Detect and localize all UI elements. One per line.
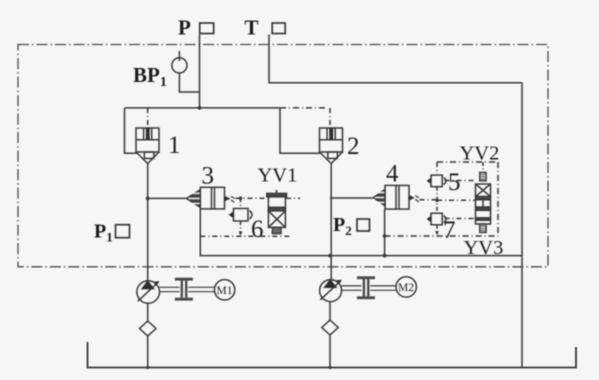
node pump2 tank junction [328,366,331,369]
wire pump2 to tank [329,335,331,368]
filter diamond 2 [322,320,338,335]
port P square [200,23,214,34]
wire branch to valve 2 side [280,108,320,153]
pilot dash item5 to valve [445,180,476,182]
filter diamond 1 [140,321,157,336]
svg-text:YV2: YV2 [460,143,500,165]
svg-text:M2: M2 [398,282,414,294]
shaft pump1-motor1 [160,287,215,291]
svg-text:4: 4 [386,160,399,187]
pilot dash valve3 to YV1 [236,197,269,199]
port T square [272,23,285,34]
wire pump1 suction [147,303,149,321]
wire T line [269,35,522,83]
svg-text:2: 2 [347,133,360,160]
wire pump1 to tank [147,336,149,368]
node return-pump2 junction [328,254,332,258]
valve 2 pilot dashed [280,107,328,109]
coupling 2 [357,276,375,299]
node pilot cross [239,196,243,200]
node valve4 drain dash junction [383,234,387,238]
svg-text:YV1: YV1 [258,165,298,187]
orifice item 5 [427,175,447,187]
wire valve4 drain [384,209,386,256]
dashed pilot box left edge upper [436,162,438,175]
pump 1 [137,280,160,303]
dash valve cap drop [482,162,484,172]
pilot dash bottom-left horizontal [200,235,290,237]
enclosure dashed border [18,45,548,267]
node valve3 feed junction [146,197,150,201]
gauge BP1 [172,51,187,73]
pump 2 [320,279,342,302]
motor M1 [214,280,234,300]
dashed bottom pilot line right [385,235,498,237]
wire valve3 drain to return [200,209,522,256]
pilot dash valve4 to cross [420,199,438,201]
orifice item 7 [427,213,447,225]
relief valve 3 [187,187,235,209]
cartridge valve 2 [320,128,343,164]
motor M2 [396,277,416,297]
pilot dash right of YV1 [286,197,300,199]
pilot dash item7 down [436,225,438,232]
wire pump2 suction [329,302,331,320]
pilot dash cross to valve [437,199,476,201]
solenoid valve YV2/YV3 [476,172,491,232]
wire P down-line [199,35,201,108]
svg-text:5: 5 [448,169,461,196]
node right pilot cross [435,198,439,202]
node P-manifold junction [198,106,202,110]
port P1 square [116,225,130,238]
valve 1 pilot dashed [147,108,149,128]
wire valve3 feed [148,197,187,199]
svg-text:3: 3 [202,163,215,190]
relief valve 4 [374,185,419,209]
wire pump2 to valve2 [330,164,332,281]
svg-text:T: T [245,16,259,40]
node return-valve4drain junction [383,254,387,258]
dashed pilot box right edge [497,162,499,237]
solenoid valve YV1 [267,190,287,234]
svg-text:P1: P1 [94,221,113,245]
orifice item 6 [229,209,252,222]
wire T down right side [521,83,523,368]
arrow item6 down [239,232,243,237]
pilot dash item7 to valve [445,218,476,220]
svg-text:YV3: YV3 [464,237,504,259]
wire valve4 feed [330,197,374,199]
svg-text:P: P [178,16,191,40]
svg-text:7: 7 [443,217,456,244]
pilot dash item5 down to cross [436,187,438,214]
port P2 square [357,219,370,231]
svg-text:6: 6 [251,216,264,243]
svg-text:M1: M1 [217,285,233,297]
cartridge valve 1 [136,128,159,164]
pilot dash item6 down [240,221,242,233]
wire branch to valve 1 side [125,108,138,153]
svg-text:1: 1 [168,132,181,159]
arrow item7 down [435,231,439,236]
coupling 1 [175,278,193,301]
dashed pilot box right group top [437,161,498,163]
wire BP1 stem [179,73,199,92]
svg-text:BP1: BP1 [133,63,167,90]
tank bottom line [88,342,577,368]
shaft pump2-motor2 [342,286,396,290]
pilot dash down to item 6 [240,198,242,208]
svg-text:P2: P2 [333,214,352,238]
node pump1 tank junction [146,366,149,369]
wire pressure manifold [125,107,280,109]
wire pump1 to valve1 [147,164,149,282]
